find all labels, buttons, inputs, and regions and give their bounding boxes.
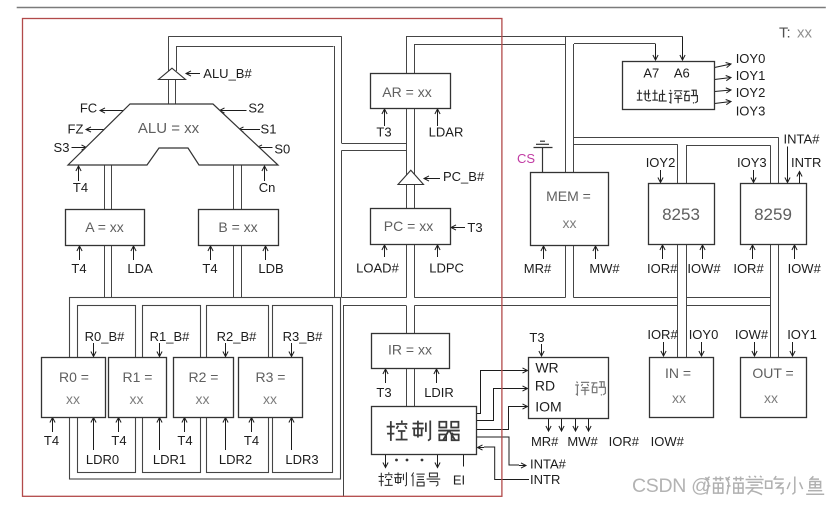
node control-signal label [378,472,392,486]
svg-text:IOW#: IOW# [788,261,822,276]
node OUT port [741,358,807,418]
node ALU trapezoid [68,104,278,165]
wire EI line [463,455,465,467]
wire V3 left [406,36,408,297]
svg-text:xx: xx [263,391,277,407]
wire V2 left [334,46,336,298]
op-amp ALU_B# tri-state buffer [159,68,186,79]
node 8259 interrupt controller [741,184,807,245]
wire MR# arrow into MEM [541,246,546,259]
node register R1 frame [143,306,201,473]
svg-text:LDAR: LDAR [429,125,464,140]
wire S1 arrow [239,127,261,132]
wire IOY1 arrow into OUT [790,342,795,356]
wire IOY3 arrow into 8259 [751,170,756,183]
svg-text:R1 =: R1 = [123,369,153,385]
wire H3 upper a [342,297,407,299]
svg-text:LDR2: LDR2 [219,452,252,467]
wire T3 arrow into IR [383,369,388,383]
node decoder title [575,382,589,396]
wire V3 left lower [406,306,408,407]
wire T4 arrow into R1 [116,418,121,433]
svg-text:T4: T4 [177,433,192,448]
svg-text:IOY2: IOY2 [646,155,676,170]
svg-text:LDIR: LDIR [424,385,454,400]
wire IOW# arrow into 8259 [792,245,797,259]
wire IOY1 output arrow [715,76,732,81]
wire IOY2 output arrow [715,88,732,93]
wire LDAR arrow into AR [435,109,440,126]
node register R2 [174,358,234,418]
svg-text:LDR0: LDR0 [86,452,119,467]
wire H2-right upper [574,137,779,139]
svg-text:MEM =: MEM = [546,188,591,204]
wire S0 arrow [257,145,273,150]
svg-text:IOW#: IOW# [651,434,685,449]
svg-text:IOR#: IOR# [733,261,764,276]
svg-text:T3: T3 [529,330,544,345]
wire IOR# arrow into 8259 [750,245,755,259]
svg-text:T4: T4 [73,180,88,195]
svg-text:IOW#: IOW# [735,327,769,342]
node controller title [387,420,408,440]
wire top bus inner right [574,43,655,45]
svg-text:xx: xx [66,391,80,407]
wire H3 lower b [415,305,678,307]
node 8253 timer [649,184,715,245]
wire INTA# from controller [476,437,519,465]
wire FZ arrow [86,127,108,132]
svg-text:INTA#: INTA# [784,132,821,147]
wire R2_B# arrow into R2 [223,343,228,357]
wire A7 input arrow [653,44,658,60]
wire ALU to B right [241,165,243,209]
svg-text:PC_B#: PC_B# [443,169,485,184]
wire V3 right [414,44,416,298]
node MEM [531,173,609,246]
svg-text:T:: T: [779,25,791,42]
svg-text:IOY0: IOY0 [689,327,719,342]
wire LDB arrow into B [263,246,268,260]
svg-text:IOY2: IOY2 [736,85,766,100]
wire INTR into controller [484,447,529,480]
node register R0 frame [78,306,136,473]
svg-text:LDR3: LDR3 [285,452,318,467]
wire decoder output arrow 4 [586,418,591,431]
wire B to bus left [233,245,235,298]
wire Cn arrow into ALU [262,166,267,181]
svg-text:R3_B#: R3_B# [283,329,324,344]
svg-text:T3: T3 [376,385,391,400]
svg-text:S0: S0 [274,142,290,157]
svg-text:PC = xx: PC = xx [384,218,433,234]
wire T3 arrow into decoder [539,344,544,356]
svg-text:S3: S3 [54,140,70,155]
wire ALU output left [168,36,170,71]
wire T4 arrow into A [77,246,82,260]
wire LDR3 arrow into R3 [289,418,294,451]
wire V2 right upper [341,36,343,143]
svg-text:AR = xx: AR = xx [382,84,431,100]
wire IOR# arrow into IN [661,342,666,356]
wire LDA arrow into A [131,246,136,260]
wire S3 arrow [72,145,87,150]
svg-text:IOY3: IOY3 [736,104,766,119]
wire S2 arrow [220,108,247,113]
svg-text:INTA#: INTA# [530,457,567,472]
ground symbol above MEM [534,141,553,172]
svg-text:LDPC: LDPC [429,261,464,276]
svg-text:IOY0: IOY0 [736,51,766,66]
svg-text:ALU_B#: ALU_B# [203,66,252,81]
svg-text:ALU = xx: ALU = xx [138,120,200,137]
wire ALU_B# arrow [186,71,200,76]
wire LDR2 arrow into R2 [223,418,228,451]
wire H2-left lower [342,150,407,152]
node register A [66,210,145,246]
wire V4 left [565,36,567,297]
svg-text:R0 =: R0 = [59,369,89,385]
wire 8259-OUT bus left [770,145,772,357]
svg-text:OUT =: OUT = [752,365,793,381]
wire left edge of controller section [343,306,345,498]
wire 8259-OUT bus right [778,137,780,357]
svg-text:LDA: LDA [127,261,153,276]
svg-text:MR#: MR# [524,261,552,276]
svg-text:IOY3: IOY3 [737,155,767,170]
wire T4 arrow into R3 [249,418,254,433]
svg-text:EI: EI [453,473,465,488]
wire control signal arrow 1 [383,455,388,468]
wire ALU output right [176,46,178,71]
wire T4 arrow into R2 [182,418,187,433]
node controller U1 [372,407,477,455]
wire ALU to A right [111,165,113,209]
svg-text:INTR: INTR [530,472,560,487]
wire RD arrowhead [521,386,528,391]
wire LDIR arrow into IR [434,369,439,383]
wire IOY3 output arrow [715,100,732,105]
wire decoder output arrow 1 [546,418,551,431]
wire IOY0 arrow into IN [699,342,704,356]
node register R3 frame [273,306,333,473]
wire A to bus left [104,245,106,298]
wire buffer to ALU left [168,80,170,105]
wire H3 upper d [686,297,771,299]
svg-text:xx: xx [196,391,210,407]
svg-text:T3: T3 [467,220,482,235]
node address-decoder title [637,90,651,101]
wire top bus outer right [406,36,682,38]
svg-text:S2: S2 [248,101,264,116]
svg-text:R3 =: R3 = [256,369,286,385]
wire R0_B# arrow into R0 [91,343,96,357]
svg-text:xx: xx [130,391,144,407]
svg-text:MW#: MW# [589,261,620,276]
svg-text:A7: A7 [643,66,659,81]
svg-text:MW#: MW# [567,434,598,449]
node register PC [371,209,451,245]
wire V3 right lower [414,306,416,407]
svg-text:IR = xx: IR = xx [388,342,432,358]
svg-text:T4: T4 [202,261,217,276]
wire IOY2 arrow into 8253 [658,170,663,183]
svg-text:RD: RD [535,378,555,394]
wire H2-right lower2 [686,145,771,147]
wire INTA# arrowhead [519,463,526,468]
svg-text:IOW#: IOW# [687,261,721,276]
wire INTA# line into 8259 [787,147,789,177]
node red highlight rectangle [23,19,502,497]
node register R1 [109,358,167,418]
wire INTR arrowhead into controller [478,445,485,450]
wire INTA# arrowhead into 8259 [785,176,790,183]
wire H3 lower c [686,305,771,307]
node register R2 frame [207,306,269,473]
wire top bus inner left [176,46,334,48]
svg-text:R1_B#: R1_B# [150,329,191,344]
wire buffer to ALU right [175,80,177,105]
svg-text:WR: WR [535,360,558,376]
wire INTR arrow out of 8259 [797,172,802,184]
svg-text:T4: T4 [111,433,126,448]
wire top bus inner mid [415,44,566,46]
node address decoder [623,62,715,110]
wire IOM arrowhead [521,404,528,409]
wire H3 upper b [415,297,566,299]
svg-text:CSDN @: CSDN @ [632,475,711,497]
wire top border line [17,7,826,9]
svg-text:R2 =: R2 = [189,369,219,385]
node decoder [529,358,609,419]
wire LDR1 arrow into R1 [157,418,162,451]
svg-text:8253: 8253 [662,205,700,224]
wire FC arrow [100,108,127,113]
op-amp PC_B# tri-state buffer [398,170,424,184]
wire T4 arrow into B [208,246,213,260]
wire H3 upper c [574,297,678,299]
svg-text:LOAD#: LOAD# [356,261,399,276]
svg-text:FZ: FZ [68,122,84,137]
wire IOY0 output arrow [715,63,732,68]
wire ALU to B left [233,165,235,209]
wire R3_B# arrow into R3 [289,343,294,357]
wire 8253-IN bus right [686,145,688,357]
wire LDR0 arrow into R0 [91,418,96,451]
wire A6 input arrow [680,36,685,60]
wire IOW# arrow into OUT [752,342,757,356]
svg-text:IN =: IN = [665,365,691,381]
svg-text:LDB: LDB [258,261,283,276]
wire decoder output arrow 2 [559,418,564,431]
wire H2-right lower [574,144,678,146]
svg-text:MR#: MR# [531,434,559,449]
wire LOAD# arrow into PC [382,245,387,257]
svg-text:T4: T4 [71,261,86,276]
svg-text:Cn: Cn [259,180,276,195]
wire ALU to A left [104,165,106,209]
svg-text:IOR#: IOR# [647,261,678,276]
wire T4 arrow into ALU [76,166,81,181]
svg-text:S1: S1 [261,122,277,137]
svg-text:FC: FC [80,101,97,116]
svg-text:A = xx: A = xx [85,219,124,235]
svg-text:8259: 8259 [754,205,792,224]
wire H2-left upper [342,143,407,145]
wire V2 right lower [341,151,343,298]
node register IR [372,334,450,369]
svg-text:xx: xx [563,215,577,231]
node register file outer frame [70,298,341,480]
wire control signal arrow 2 [435,455,440,468]
wire V4 right [573,44,575,298]
wire R1_B# arrow into R1 [157,343,162,357]
svg-text:B = xx: B = xx [218,219,257,235]
node register R0 [42,358,106,418]
svg-text:A6: A6 [674,66,690,81]
node register B [199,210,279,246]
svg-text:T4: T4 [44,433,59,448]
svg-text:IOY1: IOY1 [787,327,817,342]
svg-text:IOM: IOM [535,399,561,415]
wire H3 lower a [343,305,406,307]
wire B to bus right [241,245,243,298]
wire IOW# arrow into 8253 [700,245,705,259]
node register AR [371,74,451,109]
svg-text:R2_B#: R2_B# [217,329,258,344]
wire LDPC arrow into PC [435,245,440,257]
wire T4 arrow into R0 [50,418,55,433]
wire WR arrowhead [521,368,528,373]
svg-text:xx: xx [797,25,813,42]
wire decoder output arrow 3 [573,418,578,431]
wire T3 arrow into AR [382,109,387,126]
wire RD from controller to decoder [476,389,521,421]
svg-text:IOR#: IOR# [609,434,640,449]
svg-text:T3: T3 [376,125,391,140]
svg-text:R0_B#: R0_B# [85,329,126,344]
node IN port [650,358,714,418]
wire MW# arrow into MEM [593,246,598,259]
svg-text:T4: T4 [244,433,259,448]
wire IOR# arrow into 8253 [660,245,665,259]
wire T3 arrow into PC [451,225,465,230]
wire PC_B# arrow [424,176,440,181]
wire top bus outer left [169,36,342,38]
svg-text:IOY1: IOY1 [736,68,766,83]
wire WR from controller to decoder [476,371,521,414]
svg-text:CS: CS [517,151,535,166]
svg-text:IOR#: IOR# [647,327,678,342]
svg-text:xx: xx [672,390,686,406]
wire IOM from controller to decoder [476,407,521,430]
svg-text:INTR: INTR [791,155,821,170]
node register R3 [239,358,303,418]
node dots between control arrows [395,459,398,462]
wire A to bus right [111,245,113,298]
wire 8253-IN bus left [677,144,679,357]
svg-text:LDR1: LDR1 [153,452,186,467]
svg-text:xx: xx [764,390,778,406]
